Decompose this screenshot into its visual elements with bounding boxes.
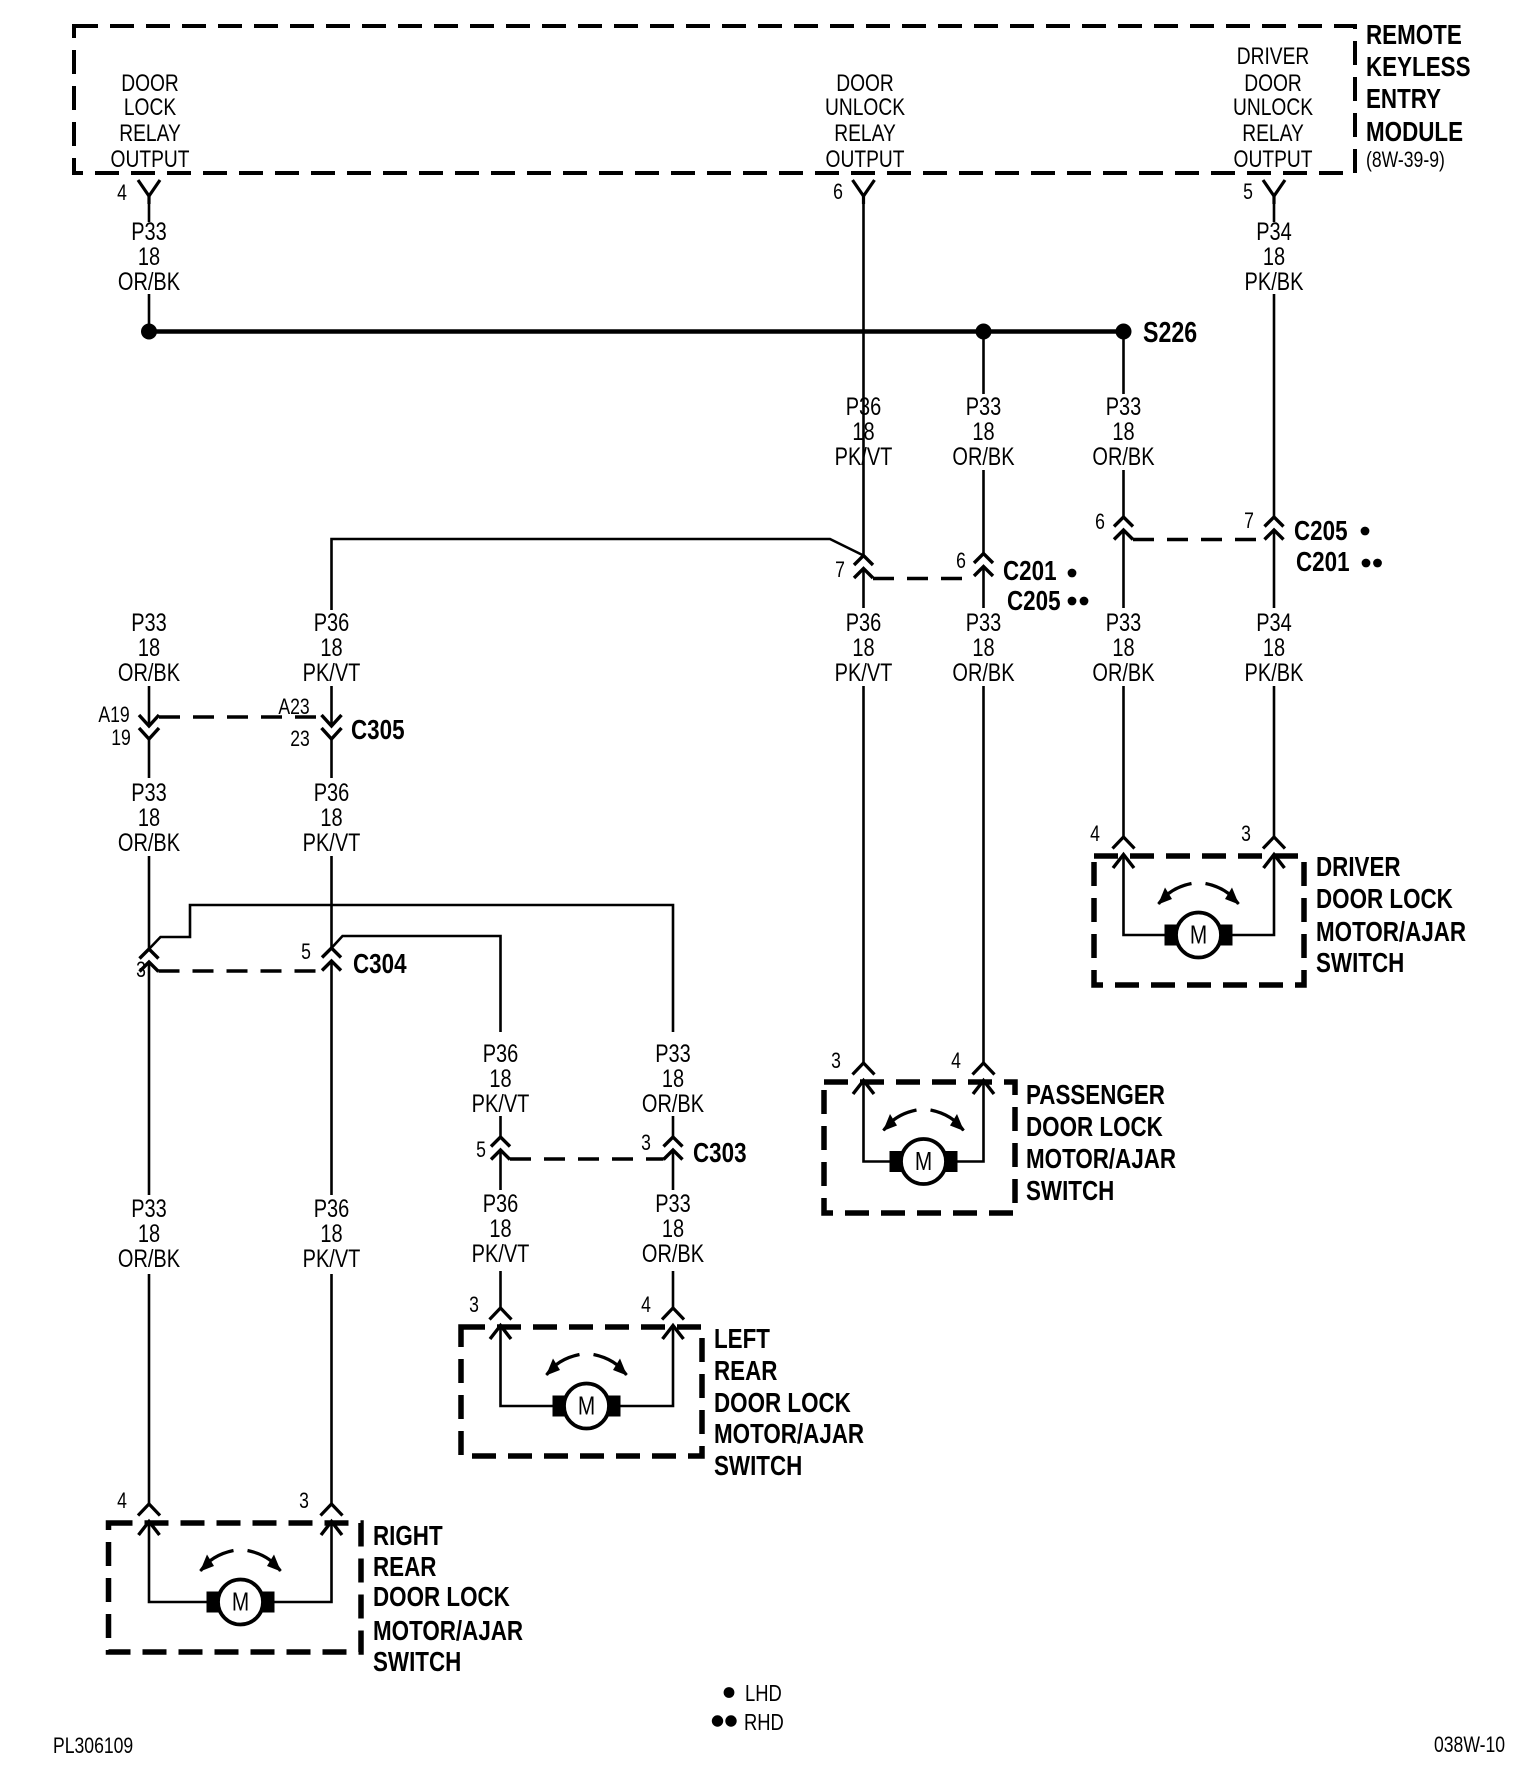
svg-text:P34: P34: [1256, 609, 1292, 637]
svg-text:OR/BK: OR/BK: [118, 659, 180, 687]
driver box internal wire pin 3 to motor: [1233, 855, 1275, 936]
svg-text:SWITCH: SWITCH: [1316, 948, 1404, 979]
svg-text:LOCK: LOCK: [124, 93, 177, 121]
svg-text:RELAY: RELAY: [1242, 119, 1304, 147]
wire label P33 18 OR/BK (left rear): [642, 1190, 704, 1268]
svg-text:P33: P33: [131, 609, 167, 637]
svg-text:OR/BK: OR/BK: [118, 268, 180, 296]
svg-text:C205: C205: [1294, 516, 1348, 547]
splice S226 bus wire: [149, 329, 1124, 334]
connector C205 half pin 7: [1265, 517, 1284, 540]
svg-text:OR/BK: OR/BK: [642, 1240, 704, 1268]
svg-text:M: M: [232, 1587, 249, 1616]
wire P34 from label down to connector C205: [1273, 294, 1276, 517]
wire P33 below C201 pin 6: [982, 567, 985, 609]
svg-text:M: M: [1190, 920, 1207, 949]
wire P33 below C304: [148, 962, 151, 1195]
right rear box pin 3 connector: [321, 1504, 343, 1535]
connector C201 dashed link: [873, 577, 974, 580]
wire P33 from label down to connector C205 pin 6: [1122, 470, 1125, 517]
pin 5 connector Y: [1263, 180, 1285, 204]
svg-text:PK/VT: PK/VT: [835, 443, 893, 471]
svg-text:P36: P36: [314, 1195, 350, 1223]
passenger box pin 4 connector: [973, 1063, 995, 1094]
wire P36 from pin 6 down to connector C201: [862, 204, 865, 556]
svg-text:18: 18: [1263, 634, 1285, 662]
wire P36 below C304: [330, 961, 333, 1195]
motor M left rear door lock: [546, 1355, 627, 1429]
wire P33 from pin 4 to label: [148, 204, 151, 222]
wire P36 to passenger box pin 3: [862, 686, 865, 1063]
svg-text:3: 3: [299, 1489, 309, 1513]
svg-text:P33: P33: [655, 1040, 691, 1068]
svg-text:(8W-39-9): (8W-39-9): [1366, 148, 1445, 172]
remote keyless entry module box: [74, 26, 1355, 173]
wire P36 from label to C305 pin A23: [330, 686, 333, 725]
svg-text:SWITCH: SWITCH: [1026, 1176, 1114, 1207]
driver box internal wire pin 4 to motor: [1124, 855, 1165, 936]
connector C305 half pin A23/23: [322, 715, 342, 739]
svg-text:MOTOR/AJAR: MOTOR/AJAR: [714, 1419, 864, 1450]
wire stub from splice to P33 label (driver branch): [1122, 332, 1125, 395]
branch wire P33 from C304 pin 3 to left-rear column: [149, 905, 673, 1032]
driver door lock motor/ajar switch box: [1094, 856, 1304, 985]
svg-text:OUTPUT: OUTPUT: [111, 145, 190, 173]
svg-text:SWITCH: SWITCH: [373, 1647, 461, 1678]
wire P36 to right rear box pin 3: [330, 1274, 333, 1504]
left rear box internal wire pin 3 to motor: [501, 1326, 553, 1407]
wire P33 below C205 pin 6: [1122, 530, 1125, 608]
driver box pin 3 connector: [1263, 837, 1285, 868]
wire P33 below C305: [148, 739, 151, 778]
svg-text:C305: C305: [351, 715, 405, 746]
svg-text:PL306109: PL306109: [53, 1734, 133, 1758]
driver box pin 4 connector: [1113, 837, 1135, 868]
passenger box internal wire pin 4 to motor: [958, 1081, 984, 1162]
wire P36 from label to C303 pin 5: [499, 1116, 502, 1137]
svg-text:ENTRY: ENTRY: [1366, 84, 1441, 115]
left rear door lock motor/ajar switch box: [461, 1327, 702, 1456]
svg-text:P33: P33: [1106, 609, 1142, 637]
svg-text:RIGHT: RIGHT: [373, 1521, 443, 1552]
left rear box pin 4 connector: [662, 1308, 684, 1339]
wire P33 from label to C305 pin A19: [148, 686, 151, 725]
svg-text:OR/BK: OR/BK: [952, 659, 1014, 687]
wire P36 below C305: [330, 739, 333, 778]
svg-text:OUTPUT: OUTPUT: [826, 145, 905, 173]
legend LHD: [724, 1681, 782, 1706]
junction dot S226: [1116, 324, 1132, 340]
svg-text:P33: P33: [131, 1195, 167, 1223]
connector C305 half pin A19/19: [139, 715, 159, 739]
svg-text:18: 18: [1112, 418, 1134, 446]
connector C305 dashed link: [159, 715, 322, 718]
svg-text:18: 18: [138, 243, 160, 271]
connector name C205 (LHD): [1294, 516, 1369, 547]
connector C303 half pin 5: [491, 1137, 510, 1160]
motor M driver door lock: [1158, 884, 1239, 958]
svg-text:18: 18: [662, 1065, 684, 1093]
wire label P33 18 OR/BK (passenger branch): [952, 393, 1014, 471]
svg-text:PK/VT: PK/VT: [303, 659, 361, 687]
right rear box internal wire pin 4 to motor: [149, 1522, 207, 1603]
svg-text:DRIVER: DRIVER: [1316, 852, 1401, 883]
wire P36 below C303: [499, 1150, 502, 1190]
svg-text:18: 18: [489, 1215, 511, 1243]
connector C205 half pin 6: [1114, 517, 1133, 540]
svg-text:MOTOR/AJAR: MOTOR/AJAR: [1316, 917, 1466, 948]
svg-text:C201: C201: [1296, 547, 1350, 578]
svg-text:18: 18: [138, 634, 160, 662]
wire label P33 18 OR/BK (above C303): [642, 1040, 704, 1118]
svg-text:18: 18: [489, 1065, 511, 1093]
svg-text:SWITCH: SWITCH: [714, 1451, 802, 1482]
svg-text:OR/BK: OR/BK: [1092, 659, 1154, 687]
svg-text:PK/VT: PK/VT: [472, 1090, 530, 1118]
svg-text:5: 5: [1243, 180, 1253, 204]
svg-text:P36: P36: [483, 1190, 519, 1218]
svg-text:18: 18: [852, 418, 874, 446]
wire P33 from label down to connector C201 pin 6: [982, 470, 985, 554]
svg-text:REAR: REAR: [373, 1552, 436, 1583]
passenger door lock motor/ajar switch box: [824, 1082, 1015, 1213]
svg-text:OR/BK: OR/BK: [952, 443, 1014, 471]
svg-text:18: 18: [972, 634, 994, 662]
svg-text:DRIVER: DRIVER: [1237, 42, 1309, 70]
svg-text:038W-10: 038W-10: [1434, 1733, 1505, 1757]
wire label P33 18 OR/BK (to passenger pin 4): [952, 609, 1014, 687]
svg-text:6: 6: [833, 180, 843, 204]
module title: REMOTE KEYLESS ENTRY MODULE (8W-39-9): [1366, 20, 1471, 173]
motor M right rear door lock: [200, 1551, 281, 1625]
wire P33 to left rear box pin 4: [672, 1271, 675, 1308]
svg-text:C304: C304: [353, 949, 407, 980]
svg-text:3: 3: [641, 1131, 651, 1155]
svg-text:19: 19: [111, 726, 131, 750]
svg-text:18: 18: [852, 634, 874, 662]
right rear box pin 4 connector: [138, 1504, 160, 1535]
left rear box pin 3 connector: [490, 1308, 512, 1339]
svg-text:MOTOR/AJAR: MOTOR/AJAR: [373, 1616, 523, 1647]
wire label P33 18 OR/BK (right rear): [118, 1195, 180, 1273]
wire P36 branch from C201 to left column: [332, 539, 864, 610]
left rear box internal wire pin 4 to motor: [621, 1326, 674, 1407]
svg-text:M: M: [578, 1391, 595, 1420]
svg-text:DOOR LOCK: DOOR LOCK: [714, 1388, 851, 1419]
connector C304 half pin 5: [322, 948, 341, 971]
svg-text:18: 18: [1112, 634, 1134, 662]
module label: DOOR UNLOCK RELAY OUTPUT: [825, 69, 905, 173]
wire P33 from label to C304 pin 3: [148, 856, 151, 949]
wire label P33 18 OR/BK (below C305): [118, 779, 180, 857]
svg-text:18: 18: [138, 1220, 160, 1248]
connector name C201 (RHD): [1296, 547, 1382, 578]
svg-text:5: 5: [476, 1138, 486, 1162]
passenger box pin 3 connector: [853, 1063, 875, 1094]
connector C205 dashed link: [1133, 538, 1265, 541]
wire P33 from label to splice S226: [148, 294, 151, 332]
connector name C205 (RHD): [1007, 586, 1088, 617]
wire P36 to left rear box pin 3: [499, 1271, 502, 1308]
svg-text:18: 18: [1263, 243, 1285, 271]
svg-text:A19: A19: [98, 703, 129, 727]
wire label P33 18 OR/BK (left column): [118, 609, 180, 687]
svg-text:P36: P36: [846, 393, 882, 421]
svg-text:A23: A23: [278, 695, 309, 719]
wire label P36 18 PK/VT (left column): [303, 609, 361, 687]
svg-text:C205: C205: [1007, 586, 1061, 617]
right rear box internal wire pin 3 to motor: [275, 1522, 332, 1603]
svg-text:OR/BK: OR/BK: [1092, 443, 1154, 471]
module label: DOOR LOCK RELAY OUTPUT: [111, 69, 190, 173]
legend RHD: [712, 1710, 784, 1735]
svg-text:18: 18: [320, 804, 342, 832]
svg-text:4: 4: [117, 181, 127, 205]
svg-text:RHD: RHD: [744, 1710, 784, 1735]
right rear door lock motor/ajar switch box: [109, 1523, 362, 1652]
svg-text:PK/BK: PK/BK: [1245, 659, 1304, 687]
wire P34 below C205 pin 7: [1273, 530, 1276, 608]
svg-text:4: 4: [1090, 822, 1100, 846]
svg-text:PK/BK: PK/BK: [1245, 268, 1304, 296]
pin 4 connector Y: [138, 180, 160, 204]
junction dot at passenger branch: [976, 324, 992, 340]
svg-text:6: 6: [956, 549, 966, 573]
svg-text:23: 23: [290, 727, 310, 751]
svg-text:18: 18: [662, 1215, 684, 1243]
svg-text:KEYLESS: KEYLESS: [1366, 52, 1471, 83]
wire label P36 18 PK/VT (left rear): [472, 1190, 530, 1268]
wire label P33 18 OR/BK (pin 4): [118, 218, 180, 296]
label LEFT REAR DOOR LOCK MOTOR/AJAR SWITCH: [714, 1324, 864, 1482]
svg-text:OR/BK: OR/BK: [118, 829, 180, 857]
wire P33 to right rear box pin 4: [148, 1274, 151, 1504]
svg-text:P36: P36: [314, 609, 350, 637]
junction dot at pin-4 branch: [141, 324, 157, 340]
connector C304 half pin 3: [140, 949, 159, 972]
connector name C201 (LHD): [1003, 556, 1076, 587]
svg-text:3: 3: [1241, 822, 1251, 846]
passenger box internal wire pin 3 to motor: [864, 1081, 890, 1162]
svg-text:18: 18: [320, 634, 342, 662]
svg-text:7: 7: [1244, 509, 1254, 533]
connector C303 dashed link: [510, 1157, 664, 1160]
svg-text:RELAY: RELAY: [834, 119, 896, 147]
svg-text:C303: C303: [693, 1138, 747, 1169]
svg-text:PASSENGER: PASSENGER: [1026, 1080, 1165, 1111]
wire P36 below C201 pin 7: [862, 569, 865, 609]
wire label P33 18 OR/BK (to driver pin 4): [1092, 609, 1154, 687]
wire label P36 18 PK/VT (right rear): [303, 1195, 361, 1273]
svg-text:P34: P34: [1256, 218, 1292, 246]
wire label P34 18 PK/BK (pin 5): [1245, 218, 1304, 296]
wire stub from splice to P33 label (passenger branch): [982, 332, 985, 395]
svg-text:M: M: [915, 1147, 932, 1176]
svg-text:MOTOR/AJAR: MOTOR/AJAR: [1026, 1144, 1176, 1175]
svg-text:P33: P33: [966, 609, 1002, 637]
wire P33 to passenger box pin 4: [982, 686, 985, 1063]
connector C303 half pin 3: [664, 1137, 683, 1160]
svg-text:18: 18: [320, 1220, 342, 1248]
wire P33 to driver box pin 4: [1122, 686, 1125, 837]
svg-text:RELAY: RELAY: [119, 119, 181, 147]
wire P34 from pin 5 to label: [1273, 204, 1276, 222]
wire label P36 18 PK/VT (unlock branch): [835, 393, 893, 471]
svg-text:LEFT: LEFT: [714, 1324, 770, 1355]
svg-text:4: 4: [641, 1293, 651, 1317]
svg-text:P33: P33: [131, 218, 167, 246]
svg-text:P36: P36: [846, 609, 882, 637]
branch wire P36 from C304 pin 5 to left-rear column: [332, 936, 501, 1032]
label PASSENGER DOOR LOCK MOTOR/AJAR SWITCH: [1026, 1080, 1176, 1207]
wire P34 to driver box pin 3: [1273, 686, 1276, 837]
connector C304 dashed link: [159, 969, 323, 972]
svg-text:DOOR LOCK: DOOR LOCK: [373, 1582, 510, 1613]
wire label P36 18 PK/VT (to passenger pin 3): [835, 609, 893, 687]
svg-text:P33: P33: [966, 393, 1002, 421]
svg-text:C201: C201: [1003, 556, 1057, 587]
svg-text:PK/VT: PK/VT: [303, 1245, 361, 1273]
svg-text:PK/VT: PK/VT: [303, 829, 361, 857]
svg-text:4: 4: [117, 1489, 127, 1513]
svg-text:OR/BK: OR/BK: [118, 1245, 180, 1273]
wire P33 from label to C303 pin 3: [672, 1116, 675, 1137]
wire P36 from label to C304 pin 5: [330, 856, 333, 948]
svg-text:REMOTE: REMOTE: [1366, 20, 1462, 51]
svg-text:3: 3: [469, 1293, 479, 1317]
connector C201 half pin 7: [854, 556, 873, 579]
wire label P33 18 OR/BK (driver branch): [1092, 393, 1154, 471]
svg-text:UNLOCK: UNLOCK: [1233, 93, 1313, 121]
svg-text:MODULE: MODULE: [1366, 117, 1463, 148]
pin 6 connector Y: [853, 180, 875, 204]
svg-text:OR/BK: OR/BK: [642, 1090, 704, 1118]
svg-text:DOOR LOCK: DOOR LOCK: [1026, 1112, 1163, 1143]
svg-text:DOOR LOCK: DOOR LOCK: [1316, 884, 1453, 915]
connector C201 half pin 6: [974, 554, 993, 577]
svg-text:REAR: REAR: [714, 1356, 777, 1387]
wire label P36 18 PK/VT (below C305): [303, 779, 361, 857]
wire label P34 18 PK/BK (to driver pin 3): [1245, 609, 1304, 687]
svg-text:P33: P33: [655, 1190, 691, 1218]
svg-text:P36: P36: [483, 1040, 519, 1068]
svg-text:4: 4: [951, 1049, 961, 1073]
svg-text:6: 6: [1095, 510, 1105, 534]
svg-text:18: 18: [138, 804, 160, 832]
module label: DRIVER DOOR UNLOCK RELAY OUTPUT: [1233, 42, 1313, 173]
svg-text:PK/VT: PK/VT: [472, 1240, 530, 1268]
label DRIVER DOOR LOCK MOTOR/AJAR SWITCH: [1316, 852, 1466, 979]
svg-text:UNLOCK: UNLOCK: [825, 93, 905, 121]
svg-text:P33: P33: [1106, 393, 1142, 421]
svg-text:18: 18: [972, 418, 994, 446]
svg-text:LHD: LHD: [745, 1681, 782, 1706]
motor M passenger door lock: [883, 1110, 964, 1184]
svg-text:P36: P36: [314, 779, 350, 807]
svg-text:P33: P33: [131, 779, 167, 807]
wire P33 below C303: [672, 1150, 675, 1190]
svg-text:3: 3: [831, 1049, 841, 1073]
wire label P36 18 PK/VT (above C303): [472, 1040, 530, 1118]
svg-text:OUTPUT: OUTPUT: [1234, 145, 1313, 173]
svg-text:7: 7: [835, 558, 845, 582]
svg-text:S226: S226: [1143, 315, 1197, 348]
label RIGHT REAR DOOR LOCK MOTOR/AJAR SWITCH: [373, 1521, 523, 1678]
svg-text:5: 5: [301, 940, 311, 964]
svg-text:PK/VT: PK/VT: [835, 659, 893, 687]
